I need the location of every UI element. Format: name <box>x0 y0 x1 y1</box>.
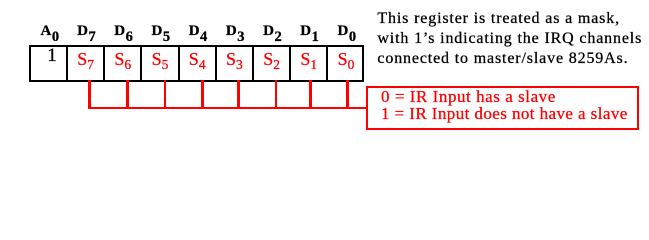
wire from S3 <box>237 80 239 109</box>
wire from S5 <box>164 80 166 109</box>
cell D7 value S7 <box>77 53 94 67</box>
wire from S6 <box>126 80 128 109</box>
table separator 6 <box>252 47 254 80</box>
wire from S1 <box>309 80 311 109</box>
table separator 7 <box>289 47 291 80</box>
label D4 <box>189 26 208 37</box>
table separator 3 <box>140 47 142 80</box>
cell D4 value S4 <box>189 53 206 67</box>
table separator 1 <box>66 47 68 80</box>
label A0 <box>41 26 60 37</box>
cell D5 value S5 <box>152 53 169 67</box>
label D3 <box>226 26 245 37</box>
register table frame <box>29 45 365 82</box>
label D7 <box>77 26 96 37</box>
cell D1 value S1 <box>300 53 317 67</box>
wire from S0 <box>346 80 348 109</box>
label D6 <box>114 26 133 37</box>
table separator 5 <box>215 47 217 80</box>
legend text line 2 <box>381 108 628 120</box>
table separator 2 <box>103 47 105 80</box>
wire from S7 <box>88 80 90 109</box>
cell D3 value S3 <box>226 53 243 67</box>
legend box <box>366 86 639 130</box>
wire from S2 <box>275 80 277 109</box>
bus wire horizontal <box>88 107 367 109</box>
legend text line 1 <box>381 91 556 103</box>
annotation paragraph <box>377 9 642 68</box>
label D0 <box>338 26 357 37</box>
cell D6 value S6 <box>114 53 131 67</box>
label D2 <box>263 26 282 37</box>
cell A0 value 1 <box>47 50 57 62</box>
cell D0 value S0 <box>338 53 355 67</box>
wire from S4 <box>201 80 203 109</box>
cell D2 value S2 <box>263 53 280 67</box>
table separator 8 <box>326 47 328 80</box>
label D1 <box>300 26 319 37</box>
table separator 4 <box>178 47 180 80</box>
label D5 <box>152 26 171 37</box>
